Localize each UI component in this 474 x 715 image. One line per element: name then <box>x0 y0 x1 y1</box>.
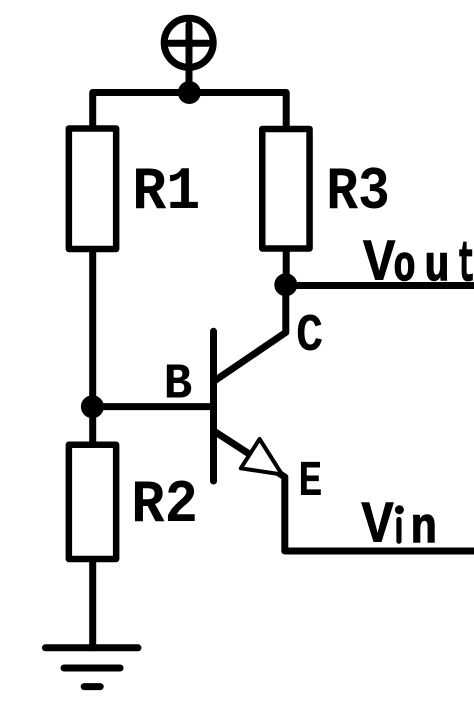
svg-text:u: u <box>425 239 450 296</box>
svg-text:R3: R3 <box>326 159 390 227</box>
svg-text:V: V <box>363 231 397 299</box>
svg-text:C: C <box>296 306 323 366</box>
svg-text:V: V <box>361 493 395 561</box>
svg-text:o: o <box>394 239 416 296</box>
svg-text:R1: R1 <box>132 159 200 227</box>
svg-text:E: E <box>298 454 322 510</box>
svg-text:B: B <box>164 357 193 414</box>
svg-text:t: t <box>457 234 474 298</box>
svg-text:R2: R2 <box>131 472 198 540</box>
svg-text:n: n <box>411 501 437 558</box>
